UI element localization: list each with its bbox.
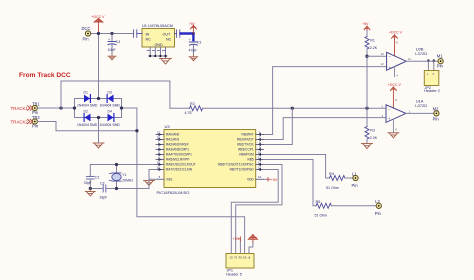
svg-text:1N4004 SMD: 1N4004 SMD: [77, 104, 98, 108]
svg-text:10: 10: [258, 151, 262, 155]
svg-text:NC: NC: [146, 38, 152, 42]
svg-text:16: 16: [157, 166, 161, 170]
svg-text:RB2/TX/CK: RB2/TX/CK: [237, 143, 254, 147]
ground below C4: [108, 54, 116, 60]
U3 left pin numbers: [157, 131, 161, 180]
svg-text:RA6/OSC2/CLKOUT: RA6/OSC2/CLKOUT: [166, 163, 196, 167]
power +5V at VDD: [268, 177, 278, 182]
svg-text:D4: D4: [108, 110, 112, 114]
svg-text:RX: RX: [239, 258, 243, 260]
svg-text:Y1: Y1: [122, 173, 126, 177]
ground below regulator: [160, 59, 172, 65]
op-amp U2B: [381, 41, 428, 78]
svg-text:RB5: RB5: [247, 158, 253, 162]
wire divider vertical: [366, 49, 368, 127]
wire U1A plus from PIC row2: [264, 118, 387, 140]
svg-text:4.7E: 4.7E: [185, 111, 193, 115]
ground at VSS: [144, 181, 155, 186]
svg-text:RA5/MCLR/VPP: RA5/MCLR/VPP: [166, 158, 189, 162]
wire row6 to R5: [264, 160, 317, 206]
resistor R4 51 Ohm: [326, 172, 345, 190]
header JP2: [424, 59, 440, 93]
connector L2: [375, 199, 382, 216]
svg-text:TX: TX: [234, 258, 237, 260]
svg-text:+5V: +5V: [233, 237, 240, 241]
svg-text:18: 18: [157, 136, 161, 140]
svg-text:10nF: 10nF: [108, 48, 117, 52]
svg-text:13: 13: [381, 52, 384, 56]
wire rail down to R2: [170, 81, 190, 108]
connector M2: [433, 107, 440, 122]
node Y1 bottom: [115, 187, 118, 190]
svg-text:D1: D1: [84, 90, 88, 94]
header JP1: [226, 254, 254, 277]
svg-text:Pin: Pin: [83, 37, 90, 42]
svg-text:L372D: L372D: [415, 103, 427, 108]
power +DCC V above U2B: [389, 31, 403, 56]
svg-text:17: 17: [157, 131, 161, 135]
svg-text:15: 15: [157, 161, 161, 165]
svg-text:14: 14: [258, 175, 262, 179]
wire R4 to L1: [345, 177, 353, 179]
crystal Y1 20MHz: [109, 165, 133, 189]
svg-text:R4: R4: [329, 172, 334, 176]
svg-text:13: 13: [258, 166, 262, 170]
node U2B minus tap: [365, 55, 368, 58]
resistor R5 51 Ohm: [315, 200, 332, 218]
node divider joins: [365, 107, 368, 110]
U3 left pin stubs: [156, 135, 164, 180]
wire U2B plus from PIC row1: [264, 67, 387, 135]
voltage regulator U1 LM78L05ACM: [142, 23, 175, 47]
svg-text:U3: U3: [165, 124, 171, 129]
wire R2 to U1A minus: [203, 107, 386, 109]
bridge frame wires: [75, 99, 137, 144]
svg-text:C3: C3: [100, 181, 104, 185]
svg-text:C2: C2: [95, 176, 99, 180]
node regulator gnd joins: [149, 55, 167, 57]
node bridge bottom center: [97, 116, 100, 119]
connector TB2: [32, 115, 40, 129]
svg-text:1N4004 SMD: 1N4004 SMD: [77, 123, 98, 127]
svg-text:Header 5: Header 5: [226, 272, 242, 276]
U3 right pin stubs: [256, 135, 264, 180]
svg-text:33pF: 33pF: [84, 181, 92, 185]
diode D1: [84, 90, 91, 102]
svg-text:GND: GND: [155, 43, 164, 47]
svg-text:12: 12: [381, 62, 384, 66]
wire TB2 to bridge lower rail: [37, 122, 136, 131]
wire crystal bottom rail: [90, 170, 156, 189]
wire JP1 pin5 to power arrow: [249, 242, 253, 254]
svg-text:1N4004 SMD: 1N4004 SMD: [100, 104, 121, 108]
svg-text:DCC: DCC: [82, 26, 91, 31]
wire crystal top rail to RA6: [90, 164, 156, 166]
svg-text:12: 12: [258, 161, 262, 165]
U3 right pin arrows: [258, 133, 261, 171]
wire VSS to ground: [149, 179, 158, 180]
svg-text:Pin: Pin: [433, 117, 440, 122]
op-amp U1A: [382, 98, 428, 133]
wire R5 to L2: [331, 205, 376, 207]
svg-text:+5V: +5V: [363, 22, 370, 26]
ground below C2: [85, 189, 95, 197]
wire branch up to top rail: [61, 81, 170, 108]
svg-text:Pin: Pin: [352, 183, 359, 188]
wire TB1 to bridge: [37, 107, 74, 109]
node DCC junction: [97, 32, 100, 35]
node C2 bottom: [89, 187, 92, 190]
wire U2B output: [406, 60, 438, 62]
wire DCC vertical to bridge: [98, 34, 100, 99]
power +5V above C1: [189, 22, 196, 34]
node C4 tap: [110, 32, 113, 35]
U3 right pin names: [218, 133, 254, 182]
node TB1 branch: [59, 106, 62, 109]
svg-text:PIC16F628-04/SO: PIC16F628-04/SO: [157, 190, 190, 195]
svg-text:IN: IN: [146, 32, 150, 36]
svg-text:2.2K: 2.2K: [370, 46, 378, 50]
svg-text:TRACK1: TRACK1: [11, 106, 29, 111]
svg-text:RA1/AN1: RA1/AN1: [166, 138, 180, 142]
resistor R2: [185, 102, 203, 115]
capacitor C2 33pF: [84, 165, 100, 189]
wire JP1 pin3 +5V: [239, 240, 241, 254]
svg-text:1N4004 SMD: 1N4004 SMD: [100, 123, 121, 127]
svg-text:Pin: Pin: [437, 64, 444, 69]
svg-text:VDD: VDD: [247, 178, 254, 182]
connector DCC pin: [82, 26, 91, 42]
ground below U1A: [388, 133, 399, 138]
svg-text:OUT: OUT: [163, 32, 172, 36]
capacitor plates at reg OUT: [175, 30, 180, 38]
svg-text:RB0/INT: RB0/INT: [241, 133, 253, 137]
wire bridge right to JP1 pin4: [137, 108, 245, 254]
wire to U2B minus: [367, 55, 387, 57]
ground below C1: [189, 55, 198, 61]
svg-text:+5V: +5V: [271, 178, 278, 182]
svg-text:RA3/AN3/CMP1: RA3/AN3/CMP1: [166, 148, 189, 152]
ground below R3: [362, 144, 373, 149]
svg-text:2.2K: 2.2K: [370, 136, 378, 140]
resistor R3 2.2K: [365, 127, 378, 144]
ground below bridge: [93, 143, 104, 148]
svg-text:RB1/RX/DT: RB1/RX/DT: [237, 138, 254, 142]
svg-text:+DCC V: +DCC V: [389, 31, 403, 35]
svg-text:+: +: [189, 38, 191, 42]
capacitor C4: [108, 34, 121, 55]
svg-text:51 Ohm: 51 Ohm: [326, 186, 339, 190]
svg-text:M1: M1: [437, 54, 443, 59]
diode D3: [107, 90, 113, 102]
power arrow at JP1 pin5: [248, 235, 257, 242]
svg-text:C1: C1: [197, 41, 202, 45]
wire DCC horizontal: [91, 33, 133, 35]
svg-text:RA0/AN0: RA0/AN0: [166, 133, 180, 137]
U3 right pin numbers: [258, 131, 262, 180]
capacitor plates at reg IN: [134, 30, 142, 38]
svg-text:L372D: L372D: [415, 51, 427, 56]
svg-text:C4: C4: [116, 40, 121, 44]
wire VDD stub: [264, 178, 269, 180]
port TRACK1: [11, 106, 33, 111]
svg-text:RB7/T1OSI/PGD: RB7/T1OSI/PGD: [230, 168, 255, 172]
svg-text:R3: R3: [370, 128, 375, 132]
svg-text:11: 11: [258, 156, 261, 160]
svg-text:47uF: 47uF: [189, 48, 198, 52]
svg-text:U1 LM78L05ACM: U1 LM78L05ACM: [142, 23, 173, 28]
IC U3 PIC16F628: [157, 124, 256, 195]
svg-text:+DCC V: +DCC V: [388, 83, 402, 87]
capacitor C1 47uF: [189, 38, 202, 55]
svg-text:R1: R1: [370, 38, 375, 42]
connector TB1: [32, 102, 40, 116]
svg-text:RA2/AN2/VREF: RA2/AN2/VREF: [166, 143, 189, 147]
wire U1A output: [406, 112, 434, 114]
port TRACK2: [11, 119, 33, 124]
capacitor C3 33pF (series): [100, 181, 108, 199]
svg-text:33pF: 33pF: [100, 196, 108, 200]
node Y1 top: [115, 163, 118, 166]
power +5V above R1: [363, 22, 370, 36]
svg-text:RB4/PGM: RB4/PGM: [239, 153, 254, 157]
svg-text:Pin: Pin: [375, 211, 382, 216]
connector L1: [352, 171, 359, 188]
power +5V at JP1 pin3: [233, 237, 241, 241]
resistor R1 2.2K: [365, 31, 378, 50]
regulator bottom pins: [147, 47, 167, 59]
wire row7 PGC to JP1 pin2: [236, 165, 282, 254]
wire row5 to R4: [264, 155, 330, 179]
svg-text:51 Ohm: 51 Ohm: [315, 214, 328, 218]
diode D4: [108, 110, 114, 122]
wire blue from OUT: [181, 34, 194, 41]
svg-text:NC: NC: [166, 38, 172, 42]
node TB2 rail joins: [135, 129, 138, 132]
svg-text:R5: R5: [316, 200, 321, 204]
svg-text:RB3/CCP1: RB3/CCP1: [238, 148, 254, 152]
svg-text:RA4/T0CKI/CMP1: RA4/T0CKI/CMP1: [166, 153, 192, 157]
power +DCC V (top): [92, 15, 106, 34]
node bridge top center: [97, 97, 100, 100]
diode D2: [84, 110, 91, 122]
power +DCC V above U1A: [388, 83, 402, 108]
wire row3 up to divider net: [264, 108, 293, 144]
node +5V corner: [192, 32, 195, 35]
wire row8 PGD to JP1 pin1: [231, 170, 278, 254]
svg-text:Header 2: Header 2: [424, 89, 440, 93]
svg-text:14: 14: [408, 57, 411, 61]
svg-text:20MHz: 20MHz: [122, 179, 133, 183]
connector M1: [437, 54, 444, 69]
svg-text:TRACK2: TRACK2: [11, 120, 29, 125]
node bridge left: [73, 106, 76, 109]
U3 left pin names: [166, 133, 196, 182]
svg-text:Pin: Pin: [32, 124, 39, 129]
svg-text:VSS: VSS: [166, 178, 172, 182]
svg-text:RB6/T1OSO/T1CKI/PGC: RB6/T1OSO/T1CKI/PGC: [218, 163, 254, 167]
U3 left pin arrows: [159, 133, 162, 171]
svg-text:D3: D3: [108, 90, 112, 94]
node bridge right: [120, 106, 123, 109]
svg-text:DA: DA: [243, 257, 247, 260]
svg-text:+5V: +5V: [189, 22, 196, 26]
svg-text:RA7/OSC1/CLKIN: RA7/OSC1/CLKIN: [166, 168, 193, 172]
node row3 joins: [291, 107, 294, 110]
svg-text:+: +: [108, 37, 110, 41]
svg-text:From Track DCC: From Track DCC: [19, 72, 71, 79]
